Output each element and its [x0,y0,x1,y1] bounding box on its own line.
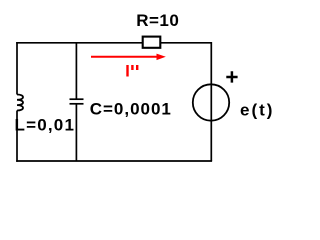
resistor R1 [143,37,161,48]
capacitor C1 bottom plate [70,103,84,105]
svg-text:C=0,0001: C=0,0001 [90,100,172,119]
svg-text:e(t): e(t) [240,101,274,120]
wire top-left segment [16,42,142,44]
inductor L1 coil [17,95,23,111]
wire bottom [16,160,212,162]
current arrow I'' shaft [91,56,158,58]
voltage source U1 circle [193,84,229,120]
wire capacitor branch upper [75,42,77,99]
current arrow I'' head [157,54,166,61]
polarity plus sign [226,71,237,82]
capacitor C1 top plate [70,98,84,100]
label I'' bar [126,65,128,77]
label I'' second prime [136,65,138,70]
wire right side [210,42,212,161]
wire left lower segment [16,111,18,162]
svg-text:R=10: R=10 [136,11,179,30]
label I'' first prime [131,65,133,70]
wire top-right segment [161,42,211,44]
svg-text:L=0,01: L=0,01 [15,116,76,135]
wire capacitor branch lower [75,104,77,161]
wire left upper segment [16,42,18,95]
